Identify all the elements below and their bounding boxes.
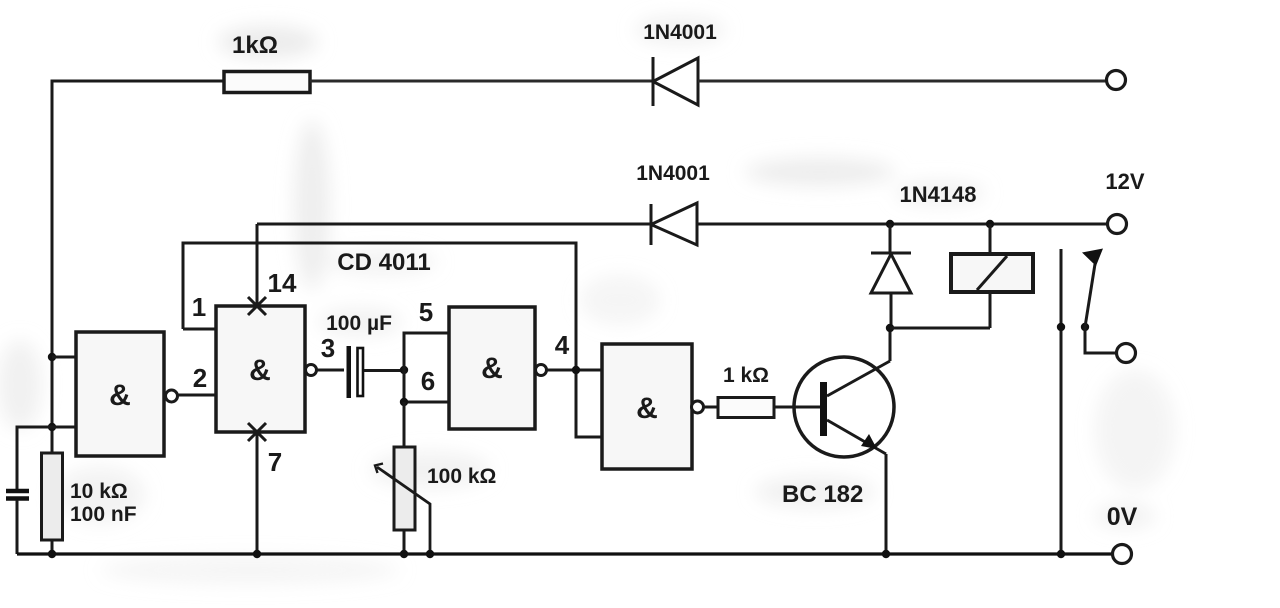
- svg-text:0V: 0V: [1107, 503, 1138, 531]
- svg-text:3: 3: [321, 333, 335, 363]
- node switch vertical dot: [1057, 323, 1065, 331]
- node pot junction: [400, 398, 408, 406]
- wire left vertical: [51, 80, 54, 454]
- wire U1C output to U1D: [547, 369, 602, 372]
- node D3 top junction: [886, 220, 894, 228]
- svg-text:&: &: [109, 379, 131, 412]
- diode D2 1N4001: [636, 162, 710, 245]
- svg-text:10 kΩ: 10 kΩ: [70, 480, 128, 503]
- node wiper rail junction: [426, 550, 434, 558]
- op-amp gate U1D (NAND &): [602, 344, 704, 469]
- svg-text:100 nF: 100 nF: [70, 503, 137, 526]
- svg-text:5: 5: [419, 297, 433, 327]
- wire collector vertical: [889, 329, 892, 361]
- op-amp gate U1B (NAND &): [216, 306, 317, 432]
- capacitor C1 100nF: [6, 427, 137, 554]
- wire U1C input bracket: [404, 333, 449, 402]
- wire U1D output to R4: [704, 406, 719, 409]
- svg-text:6: 6: [421, 366, 435, 396]
- terminal top right: [1107, 71, 1126, 90]
- resistor R1 1kΩ: [224, 32, 310, 93]
- wire ground rail: [17, 552, 1112, 555]
- wire pin 1 stub: [183, 328, 216, 331]
- svg-text:&: &: [249, 354, 271, 387]
- svg-text:1N4001: 1N4001: [636, 162, 710, 185]
- terminal 12V: [1108, 215, 1127, 234]
- terminal switch output: [1117, 344, 1136, 363]
- node D3 bottom junction: [886, 324, 894, 332]
- diode D3 1N4148: [871, 182, 977, 328]
- relay K1: [951, 224, 1033, 328]
- svg-text:4: 4: [555, 330, 570, 360]
- node pin7 rail junction: [253, 550, 261, 558]
- svg-text:1 kΩ: 1 kΩ: [723, 364, 769, 387]
- svg-text:CD 4011: CD 4011: [337, 249, 430, 276]
- node C2 to inputs junction: [400, 366, 408, 374]
- node feedback junction: [572, 366, 580, 374]
- wire gate1 input A stub: [52, 356, 76, 359]
- svg-text:100 kΩ: 100 kΩ: [427, 465, 496, 488]
- svg-text:&: &: [636, 392, 658, 425]
- svg-text:1N4148: 1N4148: [899, 182, 976, 207]
- wire top rail left segment: [51, 80, 225, 83]
- node gate1 input A: [48, 353, 56, 361]
- potentiometer R3 100kΩ: [375, 402, 496, 554]
- wire gate1 input B stub: [52, 426, 76, 429]
- svg-text:2: 2: [193, 363, 207, 393]
- switch S1 common vertical: [1060, 249, 1063, 554]
- svg-text:1kΩ: 1kΩ: [232, 32, 278, 59]
- wire top rail middle segment: [310, 80, 653, 83]
- pin 14 X mark: [248, 297, 266, 315]
- wire 12V supply rail: [257, 223, 1107, 226]
- wire U1B output to C2: [317, 369, 345, 372]
- diode D1 1N4001: [643, 21, 717, 106]
- wire pin 7 vertical to ground rail: [256, 432, 259, 554]
- svg-text:1N4001: 1N4001: [643, 21, 717, 44]
- svg-text:100 µF: 100 µF: [326, 312, 392, 335]
- node relay top junction: [986, 220, 994, 228]
- node gate1 input B: [48, 423, 56, 431]
- transistor Q1 BC182: [782, 357, 894, 508]
- node pot bottom rail junction: [400, 550, 408, 558]
- wire feedback net: pin1 up, across, down to node4: [183, 243, 602, 437]
- wire emitter vertical to rail: [885, 454, 888, 554]
- wire pin 14 vertical: [256, 224, 259, 306]
- svg-text:7: 7: [268, 447, 282, 477]
- resistor R2 10kΩ: [42, 453, 128, 540]
- resistor R4 1kΩ: [718, 364, 774, 418]
- capacitor C2 100µF: [326, 312, 404, 398]
- svg-text:12V: 12V: [1105, 169, 1144, 194]
- pin 7 X mark: [248, 423, 266, 441]
- node emitter rail junction: [882, 550, 890, 558]
- node switch rail junction: [1057, 550, 1065, 558]
- node R2 bottom rail junction: [48, 550, 56, 558]
- svg-text:14: 14: [268, 268, 297, 298]
- op-amp gate U1C (NAND &): [449, 307, 547, 429]
- wire R4 to base: [774, 406, 820, 409]
- terminal 0V: [1113, 545, 1132, 564]
- op-amp gate U1A (NAND &): [76, 332, 178, 456]
- svg-text:1: 1: [192, 292, 206, 322]
- switch S1 arm: [1081, 249, 1116, 354]
- wire relay bottom to collector node: [890, 327, 990, 330]
- wire top rail right segment: [698, 80, 1106, 83]
- wire resistor R2 bottom lead: [51, 540, 54, 554]
- wire U1A output to U1B input 2: [178, 394, 217, 397]
- svg-text:BC 182: BC 182: [782, 481, 863, 508]
- svg-text:&: &: [481, 352, 503, 385]
